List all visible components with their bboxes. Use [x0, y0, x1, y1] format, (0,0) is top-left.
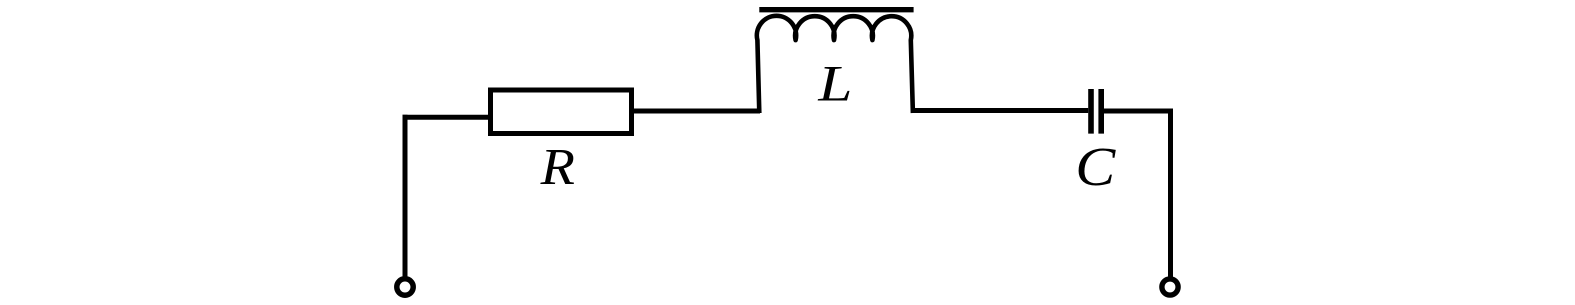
capacitor C1 left plate: [1088, 89, 1094, 134]
wire right vertical (corner down to T2): [1168, 109, 1173, 279]
wire left horizontal (corner to resistor): [403, 115, 491, 120]
inductor L1 coil with legs: [757, 16, 913, 113]
capacitor C1 right plate: [1098, 89, 1104, 134]
label C: [1075, 137, 1116, 197]
label L: [817, 56, 852, 112]
svg-text:R: R: [540, 138, 575, 196]
inductor L1 core bar: [759, 7, 913, 12]
wire resistor to inductor: [634, 109, 760, 114]
terminal T2 (right output): [1162, 279, 1178, 295]
wire capacitor to right corner: [1104, 109, 1173, 114]
svg-text:C: C: [1075, 137, 1116, 197]
terminal T1 (left input): [397, 279, 413, 295]
label R: [540, 138, 575, 196]
wire left vertical (T1 up to corner): [403, 115, 408, 279]
wire inductor to capacitor: [911, 108, 1088, 113]
resistor R1 body: [491, 90, 632, 134]
svg-text:L: L: [817, 56, 852, 112]
